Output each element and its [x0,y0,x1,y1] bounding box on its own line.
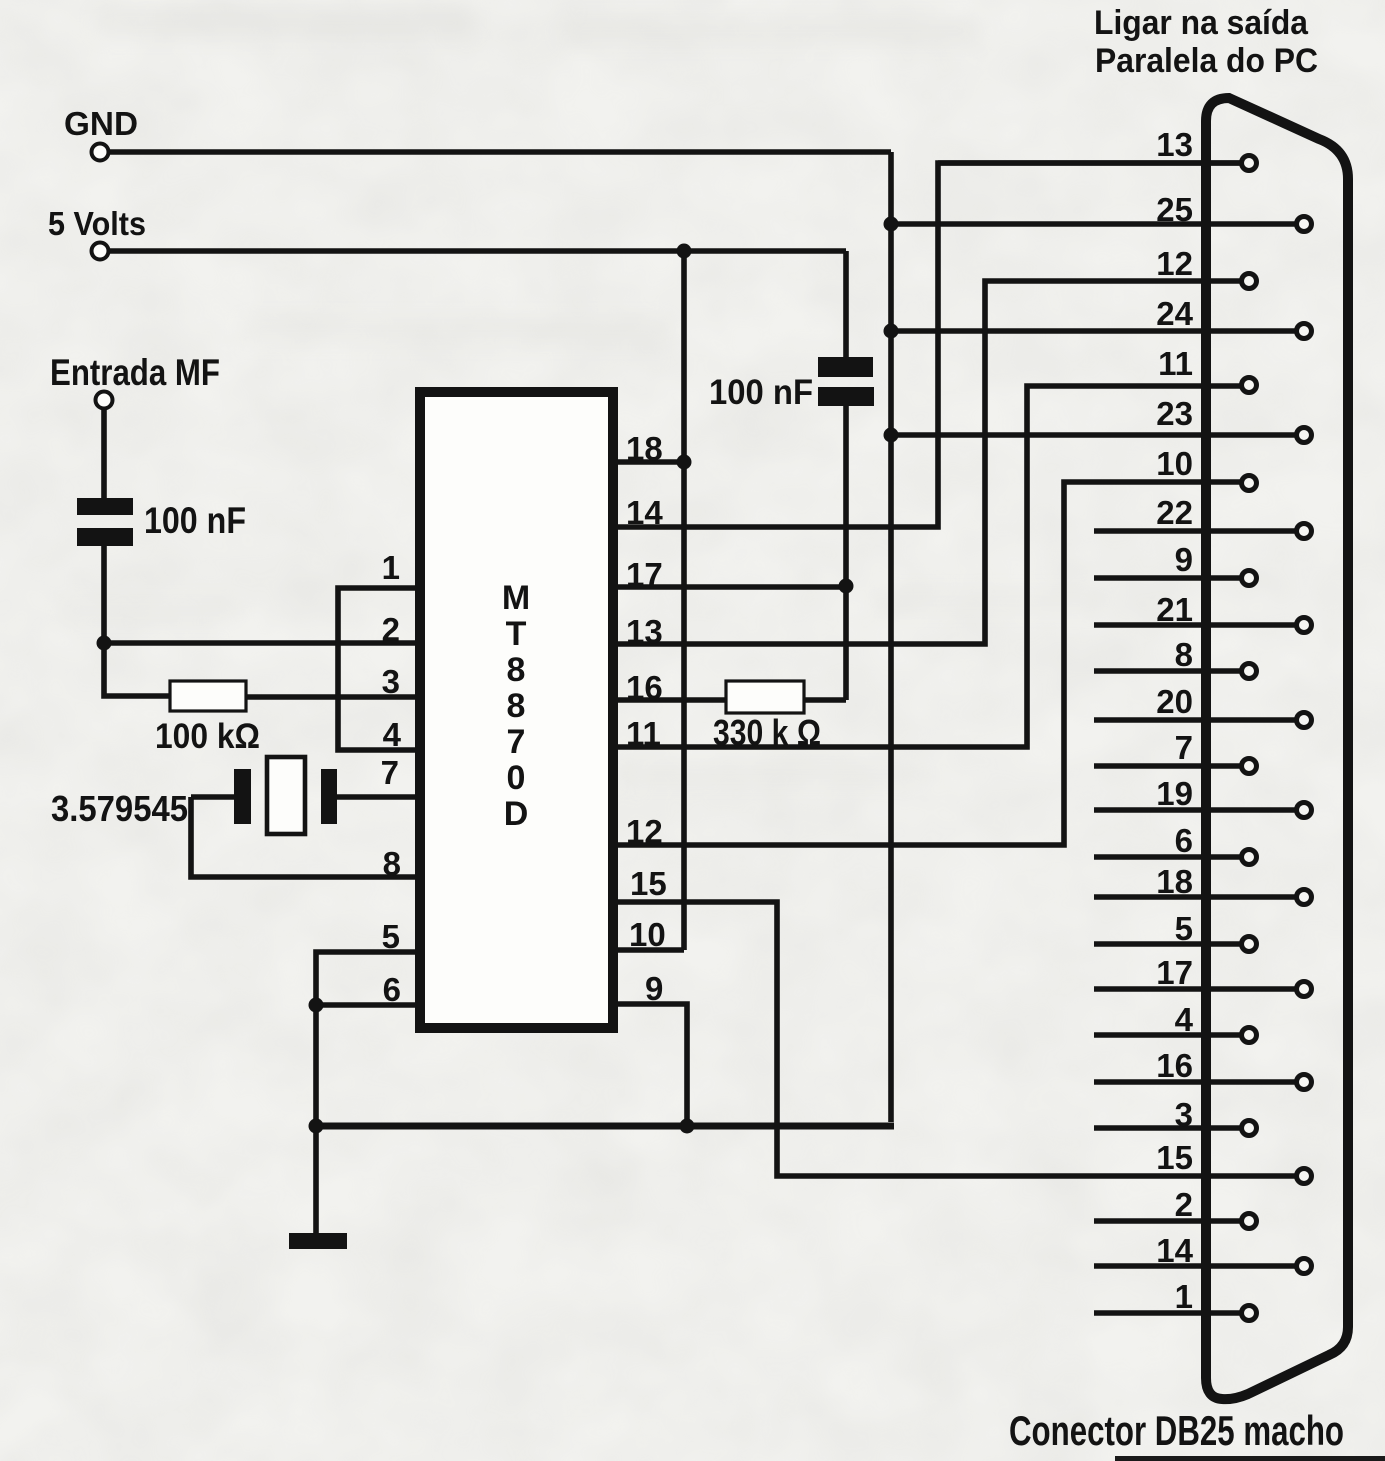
svg-text:14: 14 [626,494,663,531]
svg-text:M: M [502,579,530,617]
svg-text:21: 21 [1156,591,1193,628]
svg-text:17: 17 [1156,954,1193,991]
svg-text:GND: GND [64,105,138,142]
svg-text:12: 12 [1156,245,1193,282]
svg-text:11: 11 [1158,345,1193,382]
svg-text:100 nF: 100 nF [144,500,246,541]
svg-text:5: 5 [382,918,400,955]
svg-text:1: 1 [382,549,400,586]
svg-text:4: 4 [383,716,402,753]
svg-text:9: 9 [1175,541,1193,578]
svg-text:12: 12 [626,813,663,850]
svg-text:7: 7 [1175,729,1193,766]
svg-text:10: 10 [629,916,666,953]
svg-text:18: 18 [1156,863,1193,900]
svg-text:1: 1 [1175,1278,1193,1315]
svg-text:15: 15 [630,865,667,902]
svg-text:Paralela do PC: Paralela do PC [1095,42,1318,80]
svg-text:17: 17 [626,556,663,593]
svg-text:8: 8 [507,687,526,725]
svg-text:19: 19 [1156,775,1193,812]
svg-text:9: 9 [645,970,663,1007]
svg-text:8: 8 [1175,636,1193,673]
svg-text:6: 6 [1175,822,1193,859]
svg-text:14: 14 [1156,1232,1193,1269]
svg-text:4: 4 [1175,1001,1194,1038]
svg-text:Conector DB25 macho: Conector DB25 macho [1009,1407,1344,1454]
svg-text:5 Volts: 5 Volts [48,205,146,242]
svg-text:0: 0 [507,759,526,797]
svg-text:23: 23 [1156,395,1193,432]
svg-text:18: 18 [626,430,663,467]
svg-text:13: 13 [626,613,663,650]
svg-text:8: 8 [507,651,526,689]
svg-text:16: 16 [1156,1047,1193,1084]
svg-text:16: 16 [626,669,663,706]
svg-text:3: 3 [1175,1096,1193,1133]
svg-text:7: 7 [381,754,399,791]
svg-text:3.579545: 3.579545 [51,788,188,829]
svg-text:7: 7 [507,723,526,761]
svg-text:100 kΩ: 100 kΩ [155,717,260,756]
svg-text:24: 24 [1156,295,1193,332]
svg-text:5: 5 [1175,910,1193,947]
svg-text:13: 13 [1156,126,1193,163]
svg-text:Entrada MF: Entrada MF [50,352,220,393]
svg-text:3: 3 [382,663,400,700]
svg-text:T: T [506,615,527,653]
svg-text:11: 11 [626,715,661,752]
svg-text:2: 2 [382,611,400,648]
svg-text:15: 15 [1156,1139,1193,1176]
svg-text:100 nF: 100 nF [709,373,813,412]
svg-text:330 k Ω: 330 k Ω [713,712,821,753]
svg-text:6: 6 [383,971,401,1008]
svg-text:10: 10 [1156,445,1193,482]
svg-text:Ligar na saída: Ligar na saída [1094,4,1309,42]
svg-text:25: 25 [1156,191,1193,228]
svg-text:2: 2 [1175,1186,1193,1223]
svg-text:22: 22 [1156,494,1193,531]
svg-text:D: D [504,795,529,833]
svg-text:8: 8 [383,845,401,882]
svg-text:20: 20 [1156,683,1193,720]
